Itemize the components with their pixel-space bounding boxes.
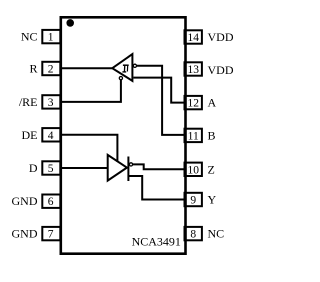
pin 12 box: [185, 96, 202, 109]
pin 8 box: [185, 227, 202, 240]
svg-text:4: 4: [48, 130, 54, 142]
pin 14 box: [185, 30, 202, 43]
pin 4 box: [42, 128, 60, 141]
svg-text:DE: DE: [22, 128, 38, 142]
svg-text:Z: Z: [208, 162, 215, 176]
svg-text:8: 8: [190, 229, 196, 241]
driver amplifier D (right-pointing triangle): [108, 155, 127, 181]
svg-text:13: 13: [187, 64, 199, 76]
wire pin4 DE to driver enable: [61, 135, 118, 162]
wire pin2 R to receiver output: [61, 67, 113, 69]
svg-text:GND: GND: [12, 194, 38, 208]
receiver enable bubble (/RE active low): [119, 77, 122, 80]
wire pin5 D to driver input: [61, 167, 108, 169]
pin 9 box: [185, 193, 202, 206]
svg-text:GND: GND: [12, 227, 38, 241]
receiver inverting input bubble (to B): [133, 64, 136, 67]
IC body U1 (NCA3491 package outline): [61, 17, 186, 253]
pin-1 indicator dot: [66, 19, 74, 27]
svg-text:Y: Y: [208, 193, 217, 207]
svg-text:VDD: VDD: [208, 30, 234, 44]
svg-text:1: 1: [48, 32, 54, 44]
svg-text:VDD: VDD: [208, 63, 234, 77]
svg-text:NC: NC: [21, 30, 38, 44]
svg-text:R: R: [29, 62, 37, 76]
pin 1 box: [42, 30, 60, 43]
pin 6 box: [42, 195, 60, 208]
svg-text:9: 9: [190, 195, 196, 207]
svg-text:D: D: [29, 161, 38, 175]
wire driver noninverting output to pin9 Y: [128, 176, 185, 200]
svg-text:/RE: /RE: [19, 95, 38, 109]
svg-text:3: 3: [48, 97, 54, 109]
pin 10 box: [185, 163, 202, 176]
wire pin3 /RE to receiver enable bubble: [61, 80, 121, 102]
svg-text:12: 12: [187, 98, 199, 110]
receiver amplifier R (left-pointing triangle): [112, 54, 132, 81]
pin 7 box: [42, 227, 60, 240]
svg-text:11: 11: [188, 130, 199, 142]
wire receiver inverting input to pin11 B: [137, 66, 186, 135]
svg-text:7: 7: [48, 229, 54, 241]
driver inverting output bubble (to Z): [129, 163, 132, 166]
pin 13 box: [185, 62, 202, 75]
svg-text:NCA3491: NCA3491: [132, 235, 181, 249]
svg-text:14: 14: [187, 32, 199, 44]
svg-text:B: B: [208, 128, 216, 142]
pin 5 box: [42, 161, 60, 174]
wire receiver noninverting input to pin12 A: [133, 78, 185, 103]
receiver label R (italic glyph strokes): [122, 65, 128, 72]
svg-text:10: 10: [187, 164, 199, 176]
svg-text:5: 5: [48, 163, 54, 175]
pin 11 box: [185, 129, 202, 142]
driver output bar: [127, 157, 129, 182]
svg-text:NC: NC: [208, 227, 225, 241]
pin 3 box: [42, 95, 60, 108]
svg-text:A: A: [208, 96, 217, 110]
svg-text:6: 6: [48, 196, 54, 208]
svg-text:2: 2: [48, 64, 54, 76]
pin 2 box: [42, 62, 60, 75]
wire driver inverting output to pin10 Z: [133, 164, 185, 169]
